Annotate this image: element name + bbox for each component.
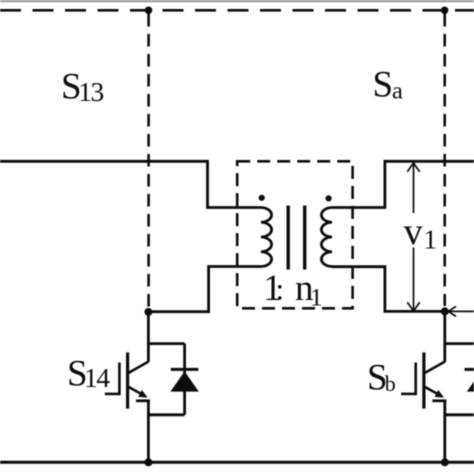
- node: junction dot, Sb emitter on bottom rail: [441, 458, 449, 466]
- wire: S14 emitter drop to bottom rail: [147, 401, 150, 463]
- label S13: [61, 67, 103, 108]
- wire: Db branch bottom (to right edge): [445, 413, 474, 416]
- polarity dot: secondary: [326, 195, 332, 201]
- wire: primary-side input lead with step: [0, 161, 261, 207]
- svg-text::: :: [276, 272, 285, 307]
- polarity dot: primary: [259, 195, 265, 201]
- wire: secondary top lead to output line: [332, 161, 474, 207]
- transistor Sb emitter diagonal with arrow: [425, 387, 447, 401]
- transformer T1 secondary winding: [321, 208, 332, 267]
- diode D14 (antiparallel): [170, 369, 198, 391]
- label Sa: [373, 65, 404, 106]
- transistor S14 emitter diagonal with arrow: [128, 387, 150, 401]
- transistor S14 collector diagonal: [128, 362, 148, 373]
- transistor Sb collector diagonal: [425, 362, 445, 373]
- svg-text:1: 1: [310, 283, 323, 312]
- label v1: [404, 211, 437, 255]
- transformer T1 dashed boundary box: [237, 161, 352, 308]
- wire: S14 collector drop from node: [147, 312, 150, 362]
- wire: top dashed DC rail: [0, 9, 474, 12]
- wire: bottom rail: [0, 461, 474, 464]
- transformer T1 core: [288, 206, 305, 270]
- node: junction dot, S14 collector node: [144, 308, 152, 316]
- svg-text:S: S: [373, 65, 394, 106]
- node: junction dot, S13 branch on top rail: [145, 7, 153, 15]
- transistor Sb gate bar: [414, 363, 417, 396]
- wire: dashed vertical branch through Sa cell: [443, 14, 446, 306]
- label Sb: [367, 358, 396, 399]
- svg-text:14: 14: [84, 362, 110, 393]
- wire: Sb emitter drop to bottom rail: [443, 401, 446, 463]
- svg-text:v: v: [404, 211, 423, 253]
- node: junction dot, Sa branch on top rail: [441, 7, 449, 15]
- transistor S14 body bar: [126, 352, 129, 408]
- svg-text:a: a: [392, 77, 403, 104]
- node: junction dot, Sb collector node: [441, 307, 449, 315]
- svg-text:13: 13: [78, 76, 103, 107]
- wire: dashed vertical branch through S13 cell: [147, 14, 150, 310]
- wire: Sb collector drop from node: [443, 311, 446, 362]
- wire: D14 branch top: [148, 342, 184, 345]
- annotation: v1 voltage arrow (double headed): [407, 163, 419, 311]
- svg-text:1: 1: [424, 224, 438, 254]
- wire: D14 branch bottom: [148, 413, 184, 416]
- annotation: current arrow into Sb node: [448, 306, 474, 316]
- label turns ratio 1 : n1: [263, 268, 322, 312]
- transistor Sb body bar: [422, 352, 425, 408]
- transformer T1 primary winding: [261, 208, 272, 267]
- diode Db (clipped at right edge): [465, 369, 474, 391]
- wire: D14 branch vertical: [183, 344, 186, 415]
- label S14: [67, 354, 110, 395]
- transistor S14 gate lead: [105, 393, 120, 396]
- node: junction dot, S14 emitter on bottom rail: [144, 458, 152, 466]
- wire: Db branch top (to right edge): [445, 342, 474, 345]
- wire: primary bottom lead down to S14 node: [148, 267, 261, 312]
- transistor Sb gate lead: [401, 393, 416, 396]
- wire: secondary bottom lead to Sb node: [332, 267, 445, 312]
- svg-text:b: b: [385, 371, 396, 396]
- transistor S14 gate bar: [118, 363, 121, 396]
